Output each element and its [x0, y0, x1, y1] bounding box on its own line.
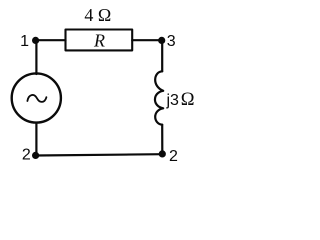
AC source sine symbol	[27, 95, 46, 102]
wire: node 1 to resistor	[36, 39, 66, 41]
svg-text:R: R	[93, 31, 105, 51]
svg-text:4 Ω: 4 Ω	[84, 5, 111, 25]
wire: resistor to node 3	[132, 39, 162, 41]
node 1 junction dot	[32, 37, 39, 44]
node 2 left junction dot	[32, 152, 39, 159]
wire: node 1 down to AC source	[35, 40, 37, 74]
svg-text:2: 2	[22, 146, 31, 163]
inductor L1 coil	[155, 71, 163, 124]
AC source V1 circle	[12, 73, 61, 122]
bottom wire: node 2 left to node 2 right	[36, 154, 163, 155]
wire: AC source down to node 2	[35, 123, 37, 156]
svg-text:1: 1	[20, 33, 29, 50]
wire: node 3 down to inductor	[161, 40, 163, 71]
wire: inductor to node 2 right	[161, 125, 163, 154]
node 2 right junction dot	[159, 150, 166, 157]
svg-text:3: 3	[167, 33, 176, 50]
svg-text:j3 Ω: j3 Ω	[166, 90, 195, 110]
resistor R1 box	[66, 30, 133, 51]
svg-text:2: 2	[169, 148, 178, 165]
node 3 junction dot	[158, 37, 165, 44]
